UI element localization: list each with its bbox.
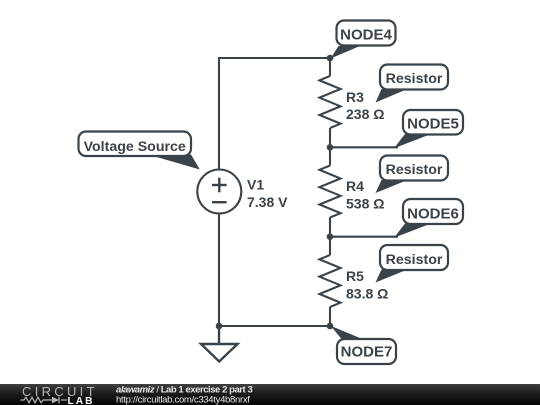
svg-text:238 Ω: 238 Ω bbox=[346, 106, 384, 122]
svg-text:Resistor: Resistor bbox=[386, 71, 443, 87]
svg-text:83.8 Ω: 83.8 Ω bbox=[346, 286, 388, 302]
svg-text:R5: R5 bbox=[346, 268, 364, 284]
svg-text:V1: V1 bbox=[247, 177, 264, 193]
svg-text:7.38 V: 7.38 V bbox=[247, 194, 288, 210]
svg-text:http://circuitlab.com/c334ty4b: http://circuitlab.com/c334ty4b8nrxf bbox=[116, 395, 250, 405]
svg-text:NODE4: NODE4 bbox=[340, 26, 392, 43]
svg-text:Resistor: Resistor bbox=[386, 252, 443, 268]
svg-text:Resistor: Resistor bbox=[386, 162, 443, 178]
svg-text:NODE5: NODE5 bbox=[407, 115, 459, 132]
svg-text:NODE7: NODE7 bbox=[341, 343, 393, 360]
svg-text:NODE6: NODE6 bbox=[407, 206, 459, 223]
svg-text:R3: R3 bbox=[346, 89, 364, 105]
svg-text:538 Ω: 538 Ω bbox=[346, 196, 384, 212]
svg-text:Voltage Source: Voltage Source bbox=[84, 139, 186, 155]
svg-text:R4: R4 bbox=[346, 178, 364, 194]
svg-text:LAB: LAB bbox=[68, 396, 95, 405]
